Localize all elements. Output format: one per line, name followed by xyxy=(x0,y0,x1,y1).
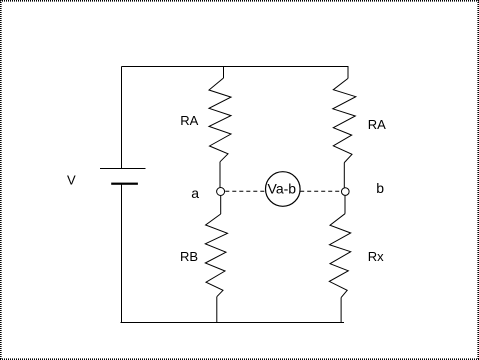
svg-text:Rx: Rx xyxy=(368,249,384,264)
svg-text:V: V xyxy=(67,173,76,188)
svg-text:RB: RB xyxy=(180,249,198,264)
svg-text:Va-b: Va-b xyxy=(268,180,297,196)
svg-text:a: a xyxy=(191,185,199,201)
svg-text:RA: RA xyxy=(180,113,198,128)
svg-text:b: b xyxy=(376,180,384,196)
svg-text:RA: RA xyxy=(368,117,386,132)
